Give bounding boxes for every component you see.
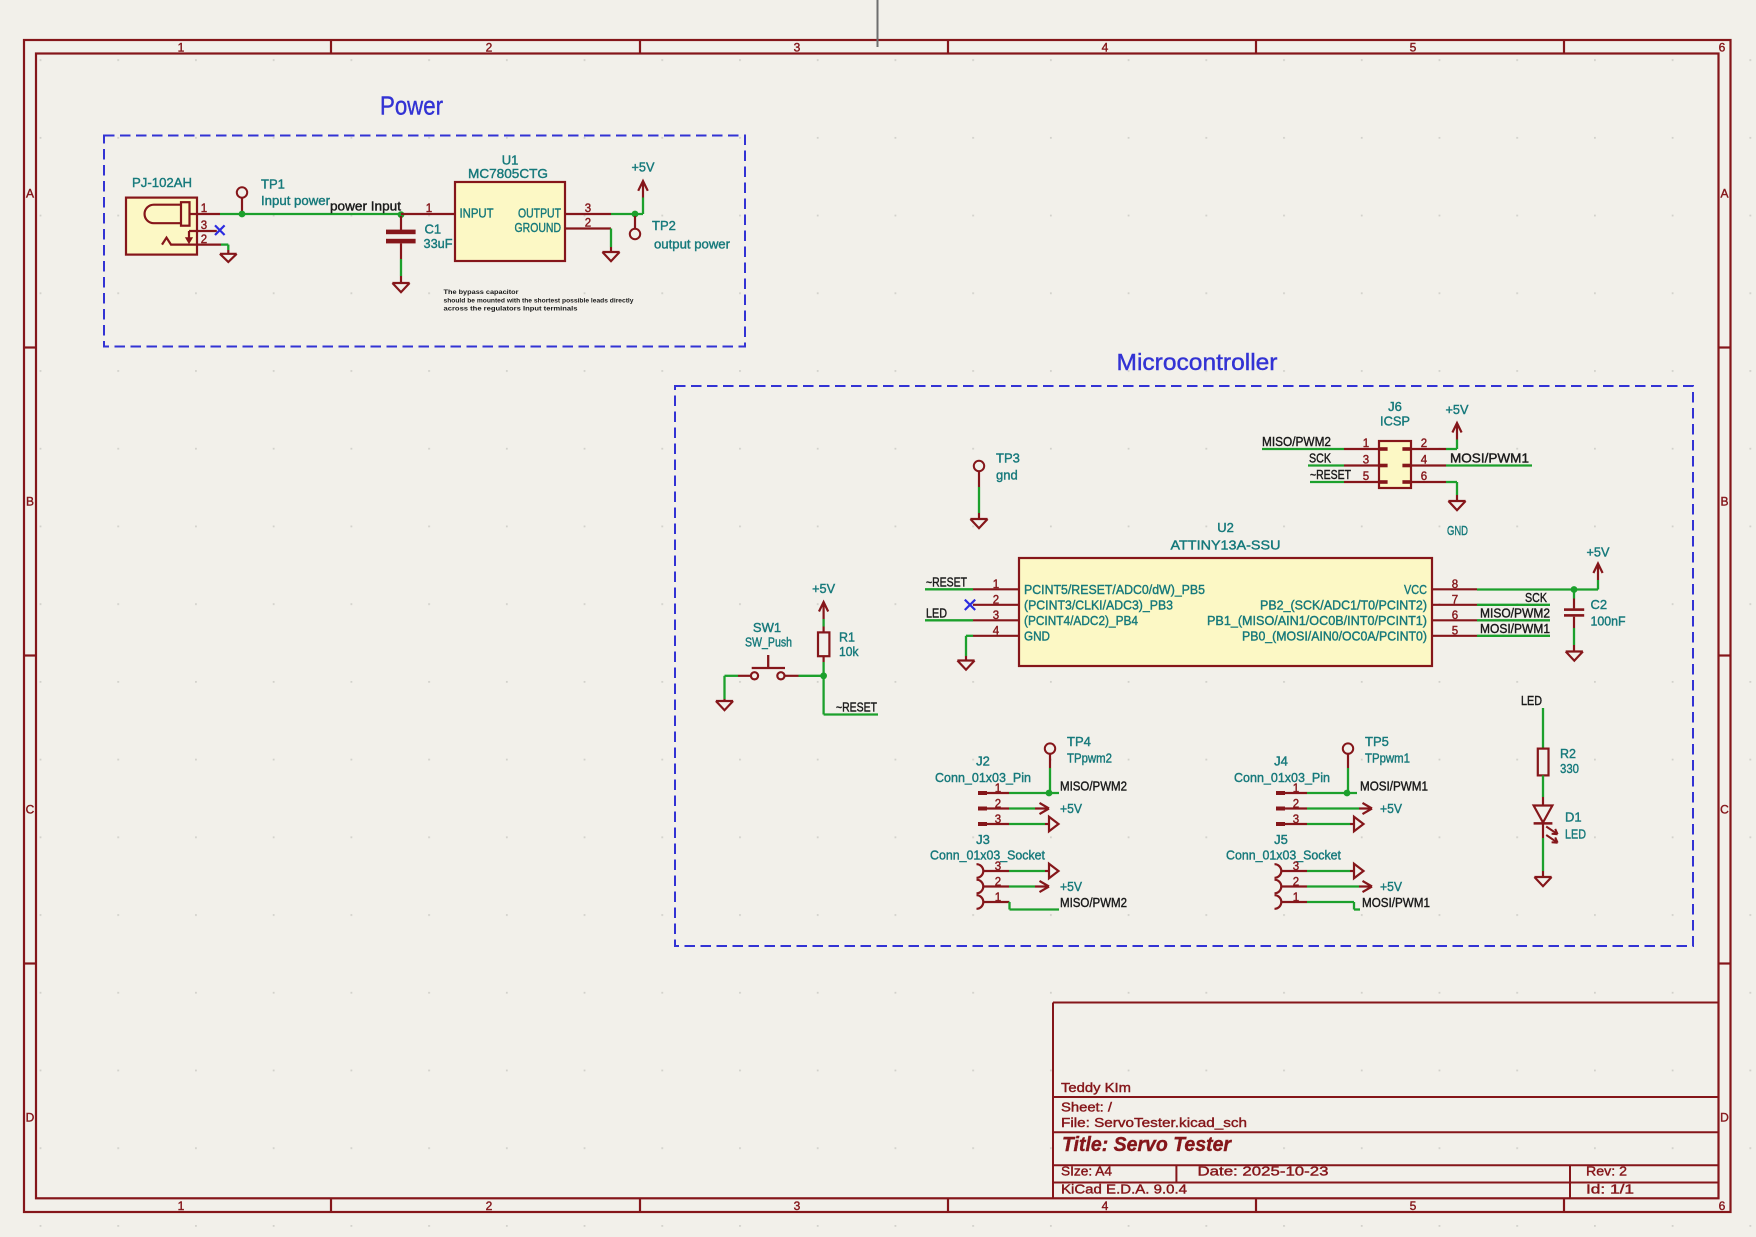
svg-text:MOSI/PWM1: MOSI/PWM1 [1360, 779, 1428, 794]
svg-text:OUTPUT: OUTPUT [518, 205, 561, 220]
svg-text:C1: C1 [425, 222, 442, 237]
frame row ticks [24, 346, 36, 348]
connector J1 sleeve squiggle [162, 238, 221, 245]
power symbol +5V at U2 VCC [1597, 580, 1599, 590]
svg-text:MOSI/PWM1: MOSI/PWM1 [1450, 451, 1529, 466]
svg-text:SIze: A4: SIze: A4 [1061, 1164, 1112, 1179]
junction at TP1 [239, 211, 246, 218]
svg-text:File: ServoTester.kicad_sch: File: ServoTester.kicad_sch [1061, 1115, 1247, 1130]
svg-text:MISO/PWM2: MISO/PWM2 [1060, 779, 1127, 794]
svg-text:SCK: SCK [1309, 451, 1331, 466]
U2 pin 3 [973, 619, 1019, 621]
U2 pin 4 [973, 635, 1019, 637]
junction at R1 bottom [820, 672, 827, 679]
wire J1 pin2 to ground [221, 243, 228, 245]
svg-text:D: D [26, 1111, 35, 1125]
test point TP1 [237, 187, 247, 197]
svg-text:MOSI/PWM1: MOSI/PWM1 [1480, 621, 1550, 636]
svg-text:3: 3 [201, 220, 207, 232]
hier arrow at J4 pin3 [1307, 823, 1350, 825]
wire U2 pin6 MISO/PWM2 [1477, 619, 1550, 621]
U2 pin 5 [1432, 635, 1477, 637]
power symbol +5V at J3 pin2 [1009, 885, 1035, 887]
svg-text:+5V: +5V [632, 160, 655, 175]
svg-text:VCC: VCC [1404, 582, 1427, 597]
svg-text:4: 4 [1421, 455, 1428, 467]
svg-text:TP3: TP3 [996, 451, 1020, 466]
svg-text:SCK: SCK [1525, 590, 1547, 605]
wire U1 ground down [610, 229, 612, 248]
svg-text:C: C [1720, 803, 1729, 817]
connector J1 pin 3 [189, 230, 217, 232]
svg-text:5: 5 [1410, 40, 1417, 54]
svg-text:A: A [1720, 187, 1728, 201]
svg-text:330: 330 [1560, 761, 1579, 776]
svg-text:3: 3 [1293, 814, 1299, 826]
svg-text:2: 2 [486, 40, 493, 54]
connector J2 pin 3 [978, 822, 987, 826]
svg-text:4: 4 [1102, 40, 1109, 54]
svg-text:INPUT: INPUT [460, 205, 494, 220]
wire input power net [220, 213, 401, 215]
svg-text:2: 2 [1421, 438, 1427, 450]
connector J4 pin 2 [1276, 807, 1285, 811]
svg-text:Input power: Input power [261, 193, 331, 208]
connector J1 pin 1 [189, 213, 220, 215]
svg-text:3: 3 [1363, 455, 1369, 467]
power symbol +5V at J4 pin2 [1307, 807, 1359, 809]
svg-text:U2: U2 [1217, 520, 1234, 535]
svg-text:C2: C2 [1591, 597, 1608, 612]
svg-text:2: 2 [995, 799, 1001, 811]
svg-text:J2: J2 [976, 754, 990, 769]
frame column ticks [330, 40, 332, 54]
svg-text:6: 6 [1719, 1199, 1726, 1213]
U1 pin 1 INPUT [401, 213, 455, 215]
junction at C2 tap [1571, 586, 1578, 593]
section box Microcontroller (dashed) [675, 386, 1693, 946]
svg-text:+5V: +5V [1380, 801, 1402, 816]
svg-text:4: 4 [1102, 1199, 1109, 1213]
power symbol +5V at J5 pin2 [1307, 885, 1359, 887]
svg-text:Teddy KIm: Teddy KIm [1061, 1080, 1131, 1095]
svg-text:SW1: SW1 [753, 620, 781, 635]
regulator U1 body [455, 182, 565, 261]
svg-text:1: 1 [1363, 438, 1369, 450]
svg-text:GND: GND [1024, 628, 1050, 643]
svg-text:1: 1 [426, 203, 432, 215]
svg-text:GND: GND [1447, 523, 1468, 538]
svg-text:5: 5 [1363, 471, 1369, 483]
svg-text:3: 3 [993, 610, 999, 622]
svg-text:5: 5 [1410, 1199, 1417, 1213]
junction at TP4 [1046, 790, 1053, 797]
svg-text:Sheet: /: Sheet: / [1061, 1100, 1112, 1115]
svg-text:+5V: +5V [1587, 545, 1610, 560]
svg-text:MISO/PWM2: MISO/PWM2 [1480, 606, 1550, 621]
svg-text:D: D [1720, 1111, 1729, 1125]
svg-text:ATTINY13A-SSU: ATTINY13A-SSU [1171, 538, 1281, 553]
svg-text:TP1: TP1 [261, 177, 285, 192]
connector J5 pin 1 [1275, 895, 1282, 909]
U2 pin 1 [973, 588, 1019, 590]
svg-text:J5: J5 [1274, 832, 1288, 847]
svg-text:6: 6 [1421, 471, 1427, 483]
junction at TP2 [632, 211, 639, 218]
wire MISO/PWM2 to J6 pin1 [1262, 448, 1344, 450]
svg-text:10k: 10k [839, 644, 859, 659]
svg-text:TPpwm2: TPpwm2 [1067, 751, 1112, 766]
J6 pin 1 [1344, 448, 1379, 450]
svg-text:4: 4 [993, 626, 1000, 638]
svg-text:LED: LED [1521, 693, 1542, 708]
resistor R1 [822, 627, 824, 633]
wire J6 pin4 MOSI/PWM1 [1446, 464, 1532, 466]
svg-text:8: 8 [1452, 579, 1458, 591]
wire R2 to D1 [1542, 775, 1544, 797]
svg-text:6: 6 [1452, 610, 1458, 622]
wire J4 pin1 MOSI/PWM1 [1307, 792, 1357, 794]
svg-text:3: 3 [995, 814, 1001, 826]
test point TP4 [1045, 743, 1055, 753]
svg-text:MC7805CTG: MC7805CTG [468, 166, 548, 181]
switch SW1 pin left [738, 675, 751, 677]
svg-text:~RESET: ~RESET [836, 700, 877, 715]
junction at TP5 [1344, 790, 1351, 797]
svg-text:KiCad E.D.A. 9.0.4: KiCad E.D.A. 9.0.4 [1061, 1182, 1187, 1197]
power symbol +5V at J2 pin2 [1009, 807, 1035, 809]
wire C1 to ground [400, 259, 402, 276]
svg-text:Title: Servo Tester: Title: Servo Tester [1062, 1134, 1232, 1156]
LED D1 [1542, 797, 1544, 806]
svg-text:1: 1 [1293, 892, 1299, 904]
connector J4 pin 3 [1276, 822, 1285, 826]
connector J6 body [1379, 441, 1411, 488]
wire ~RESET to U2 pin1 [925, 588, 973, 590]
hier arrow at J5 pin3 [1307, 870, 1350, 872]
svg-text:33uF: 33uF [424, 236, 453, 251]
svg-text:+5V: +5V [1060, 879, 1082, 894]
U2 pin 8 [1432, 588, 1477, 590]
svg-text:1: 1 [178, 1199, 185, 1213]
J6 pin 2 [1411, 448, 1446, 450]
svg-text:1: 1 [993, 579, 999, 591]
capacitor C1 [400, 216, 402, 231]
svg-text:3: 3 [794, 1199, 801, 1213]
LED D1 emission arrows [1546, 827, 1557, 835]
wire D1 to ground [1542, 838, 1544, 871]
U2 pin 2 [973, 604, 1019, 606]
wire U2 pin5 MOSI/PWM1 [1477, 635, 1550, 637]
svg-text:output power: output power [654, 237, 731, 252]
svg-text:A: A [26, 187, 34, 201]
svg-text:100nF: 100nF [1591, 614, 1626, 629]
hier arrow at J3 pin3 [1009, 870, 1045, 872]
svg-text:2: 2 [993, 595, 999, 607]
svg-text:power Input: power Input [330, 199, 401, 214]
connector J6 pin notches [1379, 447, 1388, 451]
ground symbol at U1 GROUND [610, 247, 612, 252]
svg-text:LED: LED [1565, 827, 1586, 842]
power symbol +5V at J6 [1456, 440, 1458, 450]
connector J2 pin 1 [978, 791, 987, 795]
svg-text:should be mounted with the sho: should be mounted with the shortest poss… [444, 298, 634, 305]
svg-text:1: 1 [995, 783, 1001, 795]
connector J5 pin 3 [1275, 864, 1282, 878]
svg-text:+5V: +5V [1060, 801, 1082, 816]
svg-text:LED: LED [926, 605, 947, 620]
svg-text:1: 1 [995, 892, 1001, 904]
ground symbol at C2 [1573, 645, 1575, 652]
ground symbol at J1 pin2 [227, 250, 229, 254]
wire J5 pin1 MOSI/PWM1 [1307, 901, 1354, 903]
svg-text:Microcontroller: Microcontroller [1117, 349, 1278, 375]
wire ~RESET from SW1/R1 [822, 676, 824, 715]
svg-text:D1: D1 [1565, 810, 1582, 825]
title block outline [1053, 1002, 1719, 1004]
wire U1 output to +5V corner [611, 213, 643, 215]
J6 pin 5 [1344, 481, 1379, 483]
svg-text:J6: J6 [1388, 399, 1402, 414]
ground symbol at U2 pin4 [965, 656, 967, 661]
test point TP2 [634, 216, 636, 229]
svg-text:SW_Push: SW_Push [745, 635, 792, 650]
connector J3 pin 2 [977, 880, 984, 894]
svg-text:(PCINT3/CLKI/ADC3)_PB3: (PCINT3/CLKI/ADC3)_PB3 [1024, 597, 1173, 612]
svg-text:TP5: TP5 [1365, 734, 1389, 749]
hier arrow at J2 pin3 [1009, 823, 1045, 825]
svg-text:+5V: +5V [812, 581, 835, 596]
connector J1 switch arrow [188, 231, 190, 238]
switch SW1 symbol [751, 672, 758, 679]
svg-text:Conn_01x03_Pin: Conn_01x03_Pin [1234, 770, 1330, 785]
svg-text:~RESET: ~RESET [926, 574, 967, 589]
svg-text:MISO/PWM2: MISO/PWM2 [1060, 895, 1127, 910]
svg-text:7: 7 [1452, 595, 1458, 607]
svg-text:J3: J3 [976, 832, 990, 847]
connector J3 pin 1 [977, 895, 984, 909]
svg-text:2: 2 [1293, 799, 1299, 811]
capacitor C2 [1573, 592, 1575, 599]
wire ~RESET to J6 pin5 [1310, 481, 1344, 483]
svg-text:across the regulators Input te: across the regulators Input terminals [444, 305, 579, 312]
svg-text:C: C [26, 803, 35, 817]
wire J6 pin2 to +5V [1446, 448, 1457, 450]
connector J1 PJ-102AH body [126, 198, 197, 255]
no-connect on U2 pin 2 [965, 600, 975, 610]
wire U2 pin7 SCK [1477, 604, 1550, 606]
svg-text:2: 2 [995, 877, 1001, 889]
connector J2 pin 2 [978, 807, 987, 811]
resistor R2 [1538, 749, 1549, 776]
power symbol +5V at R1 [819, 602, 828, 619]
svg-text:The bypass capacitor: The bypass capacitor [444, 289, 520, 296]
svg-text:3: 3 [995, 861, 1001, 873]
test point TP3 [974, 461, 984, 471]
connector J1 barrel symbol [145, 205, 181, 224]
svg-text:MOSI/PWM1: MOSI/PWM1 [1362, 895, 1430, 910]
svg-text:~RESET: ~RESET [1310, 467, 1351, 482]
svg-text:3: 3 [1293, 861, 1299, 873]
wire R1 to junction [822, 662, 824, 676]
svg-text:1: 1 [178, 40, 185, 54]
svg-text:Conn_01x03_Pin: Conn_01x03_Pin [935, 770, 1031, 785]
wire SCK to J6 pin3 [1308, 464, 1344, 466]
junction at C1 tap [398, 211, 405, 218]
U1 pin 2 GROUND [565, 227, 611, 229]
ground symbol at C1 [400, 276, 402, 283]
svg-text:6: 6 [1719, 40, 1726, 54]
wire C2 to ground [1573, 628, 1575, 645]
wire TP3 to ground [978, 487, 980, 513]
J6 pin 4 [1411, 464, 1446, 466]
ground symbol at TP3 [978, 513, 980, 519]
wire U2 GND pin down [966, 635, 973, 637]
svg-text:GROUND: GROUND [515, 220, 562, 235]
svg-text:1: 1 [1293, 783, 1299, 795]
svg-text:B: B [1720, 495, 1728, 509]
svg-text:R2: R2 [1560, 747, 1576, 761]
J6 pin 3 [1344, 464, 1379, 466]
svg-text:Conn_01x03_Socket: Conn_01x03_Socket [1226, 848, 1341, 863]
wire SW1 right to R1 [799, 675, 824, 677]
svg-text:Id: 1/1: Id: 1/1 [1586, 1182, 1634, 1197]
svg-text:B: B [26, 495, 34, 509]
test point TP5 [1343, 743, 1353, 753]
svg-text:PB2_(SCK/ADC1/T0/PCINT2): PB2_(SCK/ADC1/T0/PCINT2) [1260, 597, 1427, 612]
wire LED to R2 [1542, 708, 1544, 749]
svg-text:2: 2 [585, 217, 591, 229]
svg-text:(PCINT4/ADC2)_PB4: (PCINT4/ADC2)_PB4 [1024, 613, 1138, 628]
svg-text:Power: Power [380, 91, 443, 121]
connector J5 pin 2 [1275, 880, 1282, 894]
svg-text:2: 2 [201, 234, 207, 246]
stray screenshot cursor line top centre [877, 0, 879, 47]
wire J6 pin6 to ground [1446, 481, 1457, 483]
switch SW1 pin right [785, 675, 799, 677]
J6 pin 6 [1411, 481, 1446, 483]
U2 pin 6 [1432, 619, 1477, 621]
svg-text:gnd: gnd [996, 468, 1018, 483]
connector J3 pin 3 [977, 864, 984, 878]
svg-text:+5V: +5V [1380, 879, 1402, 894]
svg-text:1: 1 [201, 203, 207, 215]
svg-text:3: 3 [794, 40, 801, 54]
wire J3 pin1 MISO/PWM2 [1008, 901, 1011, 903]
svg-text:PB1_(MISO/AIN1/OC0B/INT0/PCINT: PB1_(MISO/AIN1/OC0B/INT0/PCINT1) [1207, 613, 1427, 628]
power symbol +5V at U1 output [642, 198, 644, 215]
no-connect on J1 pin 3 [215, 225, 225, 235]
svg-text:Conn_01x03_Socket: Conn_01x03_Socket [930, 848, 1045, 863]
microcontroller U2 body [1019, 558, 1432, 666]
ground symbol at J6 pin6 [1456, 495, 1458, 501]
svg-text:TP4: TP4 [1067, 734, 1091, 749]
svg-text:Date: 2025-10-23: Date: 2025-10-23 [1198, 1164, 1329, 1179]
wire LED to U2 pin3 [925, 619, 973, 621]
U1 pin 3 OUTPUT [565, 213, 611, 215]
ground symbol at SW1 [723, 699, 725, 701]
svg-text:TPpwm1: TPpwm1 [1365, 751, 1410, 766]
wire SW1 left to ground [725, 675, 739, 677]
svg-text:ICSP: ICSP [1380, 414, 1410, 429]
svg-text:2: 2 [486, 1199, 493, 1213]
svg-text:+5V: +5V [1446, 402, 1469, 417]
wire U2 VCC to C2 [1477, 588, 1598, 590]
connector J4 pin 1 [1276, 791, 1285, 795]
ground symbol at D1 [1542, 871, 1544, 877]
svg-text:TP2: TP2 [652, 218, 676, 233]
svg-text:Rev: 2: Rev: 2 [1586, 1164, 1627, 1179]
svg-text:R1: R1 [839, 631, 855, 645]
svg-text:5: 5 [1452, 626, 1458, 638]
svg-text:3: 3 [585, 203, 591, 215]
svg-text:PCINT5/RESET/ADC0/dW)_PB5: PCINT5/RESET/ADC0/dW)_PB5 [1024, 582, 1205, 597]
svg-text:PJ-102AH: PJ-102AH [132, 175, 192, 190]
U2 pin 7 [1432, 604, 1477, 606]
svg-text:PB0_(MOSI/AIN0/OC0A/PCINT0): PB0_(MOSI/AIN0/OC0A/PCINT0) [1242, 628, 1427, 643]
section box Power (dashed) [104, 136, 745, 347]
svg-text:2: 2 [1293, 877, 1299, 889]
wire J2 pin1 MISO/PWM2 [1009, 792, 1059, 794]
svg-text:J4: J4 [1274, 754, 1288, 769]
svg-text:MISO/PWM2: MISO/PWM2 [1262, 434, 1331, 449]
